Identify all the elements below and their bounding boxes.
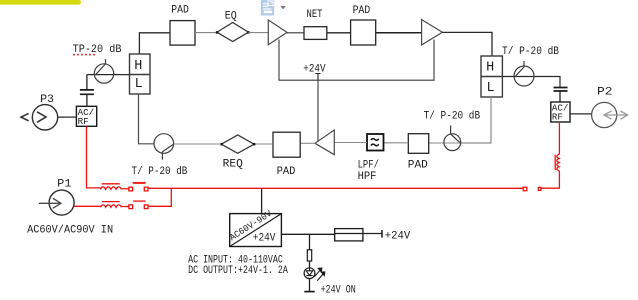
- wire: LPF to return amp: [334, 142, 367, 144]
- svg-text:DC OUTPUT:+24V-1. 2A: DC OUTPUT:+24V-1. 2A: [188, 265, 288, 277]
- wire to switch: [122, 206, 129, 208]
- junction dot EQ right: [247, 31, 249, 33]
- switch S3 pad right: [538, 187, 541, 190]
- equalizer EQ diamond: [217, 23, 249, 42]
- red main line: [148, 187, 523, 189]
- attenuator PAD (top left): [170, 21, 195, 45]
- wire: return amp to PAD mid: [300, 142, 315, 144]
- svg-text:HPF: HPF: [358, 171, 377, 183]
- wire: PAD1 to EQ: [195, 32, 217, 34]
- AC/RF box right: [551, 102, 570, 122]
- wire: amp1 to NET: [287, 32, 304, 34]
- test point TP1 circle: [94, 64, 113, 83]
- TP1 probe line: [95, 59, 105, 75]
- T1 lower core bar: [102, 201, 120, 203]
- fuse F1: [335, 229, 363, 241]
- svg-text:L: L: [487, 81, 495, 96]
- attenuator PAD (middle): [273, 132, 300, 157]
- wire: L right down and left to TP3: [461, 97, 491, 143]
- yellow highlight bar: [0, 0, 81, 5]
- svg-text:RF: RF: [78, 116, 89, 127]
- paste options icon: [261, 0, 274, 16]
- +24V rail under amps: [279, 40, 434, 81]
- +24V terminal tick: [381, 230, 383, 238]
- wire: red line down to PSU: [261, 188, 263, 213]
- port P2 circle: [592, 102, 617, 127]
- wire: junction down to resistor: [309, 234, 311, 250]
- test point TP3 circle: [444, 134, 461, 151]
- svg-text:T/ P-20 dB: T/ P-20 dB: [502, 46, 559, 58]
- equalizer REQ diamond: [221, 135, 254, 153]
- P3 chevron inside: [37, 112, 46, 123]
- wire: PAD2 to amp2: [376, 32, 422, 34]
- svg-text:AC60V/AC90V IN: AC60V/AC90V IN: [27, 225, 113, 237]
- red wire to right coil: [541, 171, 560, 188]
- network NET box: [304, 27, 327, 40]
- svg-text:LPF/: LPF/: [358, 160, 379, 172]
- port P3 circle: [32, 105, 57, 130]
- paste options dropdown arrow: [280, 6, 285, 9]
- TP2 probe line: [162, 144, 173, 159]
- amplifier U2 (top right): [422, 20, 443, 45]
- switch S1 pad: [144, 187, 148, 191]
- P3 chevron outside: [21, 113, 29, 120]
- wire: fuse to +24V terminal: [363, 233, 382, 235]
- svg-text:PAD: PAD: [171, 5, 189, 17]
- svg-text:RF: RF: [552, 112, 563, 123]
- junction dot REQ left: [220, 143, 222, 145]
- right coil core bar: [554, 155, 556, 170]
- red wire: coil up to AC/RF right: [558, 122, 560, 155]
- svg-text:P3: P3: [40, 94, 54, 106]
- red wire: P1 to lower coil: [74, 205, 100, 207]
- TP3 probe line: [451, 126, 460, 143]
- attenuator PAD (mid right): [408, 134, 428, 154]
- switch H/L left box: [130, 54, 151, 94]
- P2 double arrow: [604, 111, 628, 119]
- wire: TP2 to H/L left bottom: [139, 94, 155, 144]
- ground: [304, 291, 314, 293]
- AC/RF box left: [76, 106, 96, 126]
- red wire joining rows: [148, 188, 171, 206]
- svg-text:+24V: +24V: [303, 64, 326, 76]
- wire to switch: [122, 188, 129, 190]
- wire down to capacitor C1: [86, 75, 88, 90]
- red grammar underline: [133, 182, 146, 184]
- switch S1 pad: [129, 187, 133, 191]
- port P1 circle: [49, 190, 74, 215]
- wire: H/L left top to PAD1: [139, 33, 170, 54]
- attenuator PAD (top second): [351, 20, 376, 45]
- switch S2 pad: [129, 205, 133, 209]
- filter LPF/HPF box: [367, 134, 384, 151]
- wire: H/L left to test point TP1: [87, 74, 130, 76]
- red wire: AC/RF left down: [87, 126, 101, 188]
- svg-text:+24V: +24V: [253, 232, 276, 244]
- amplifier U1 (top): [268, 20, 287, 45]
- svg-text:P1: P1: [57, 179, 72, 191]
- T1 upper core bar: [102, 183, 120, 185]
- wavy lines inside: [371, 139, 379, 146]
- wire: amp2 to H/L right: [442, 32, 492, 56]
- svg-text:T/ P-20 dB: T/ P-20 dB: [424, 111, 481, 123]
- junction dot EQ left: [216, 31, 218, 33]
- wire: NET to PAD2: [327, 32, 351, 34]
- switch S2 blade: [133, 200, 145, 202]
- svg-text:L: L: [135, 77, 143, 92]
- wire: PAD to LPF/HPF: [384, 142, 409, 144]
- P1 arrow: [39, 198, 61, 208]
- switch S3 pad left: [523, 187, 527, 191]
- inductor right vertical coil: [557, 154, 559, 171]
- PSU diagonal: [230, 214, 282, 247]
- power supply PSU box: [230, 214, 282, 247]
- red dotted spell underline: [73, 54, 95, 56]
- LED light arrows: [314, 268, 325, 281]
- test point TP4 circle: [514, 66, 534, 86]
- svg-text:PAD: PAD: [277, 166, 296, 178]
- capacitor C2: [554, 88, 568, 92]
- svg-text:+24V: +24V: [385, 231, 411, 243]
- svg-text:NET: NET: [307, 9, 323, 21]
- wire: EQ to amp1: [249, 32, 269, 34]
- wire: resistor to LED: [309, 261, 311, 268]
- svg-text:PAD: PAD: [353, 5, 371, 17]
- amplifier U3 (return, pointing left): [315, 130, 334, 155]
- +24V terminal tick: [316, 74, 321, 81]
- wire: AC/RF left to P3: [58, 116, 77, 118]
- switch H/L right box: [481, 56, 502, 97]
- wire: AC/RF right to P2: [570, 113, 592, 115]
- wire: H/L right to TP4 and cap: [502, 77, 560, 88]
- svg-text:H: H: [134, 59, 142, 74]
- LED D1: [304, 268, 315, 279]
- svg-text:EQ: EQ: [225, 11, 237, 23]
- svg-text:REQ: REQ: [223, 158, 243, 170]
- wire: REQ to TP2: [174, 143, 222, 145]
- junction dot REQ right: [253, 143, 255, 145]
- TP4 probe line: [515, 61, 524, 77]
- resistor R1: [307, 250, 311, 261]
- wire: PSU output: [281, 233, 334, 235]
- wire: LED to ground: [309, 279, 311, 292]
- test point TP2 circle: [154, 134, 174, 154]
- svg-text:H: H: [486, 61, 494, 76]
- switch S1 blade: [133, 182, 145, 184]
- wire through TP3 to PAD right: [429, 142, 461, 144]
- svg-text:+24V ON: +24V ON: [321, 285, 356, 297]
- switch S2 pad: [144, 205, 148, 209]
- svg-text:TP-20 dB: TP-20 dB: [73, 44, 122, 56]
- wire: PAD mid to REQ: [254, 143, 273, 145]
- transformer T1 upper coil: [101, 187, 122, 189]
- wire: +24V rail down to return amp: [317, 80, 319, 141]
- svg-text:PAD: PAD: [408, 160, 428, 172]
- svg-text:T/ P-20 dB: T/ P-20 dB: [132, 166, 188, 178]
- red power network: [74, 122, 559, 209]
- svg-text:P2: P2: [597, 87, 613, 99]
- transformer T1 lower coil: [101, 205, 122, 207]
- capacitor C1: [80, 90, 94, 94]
